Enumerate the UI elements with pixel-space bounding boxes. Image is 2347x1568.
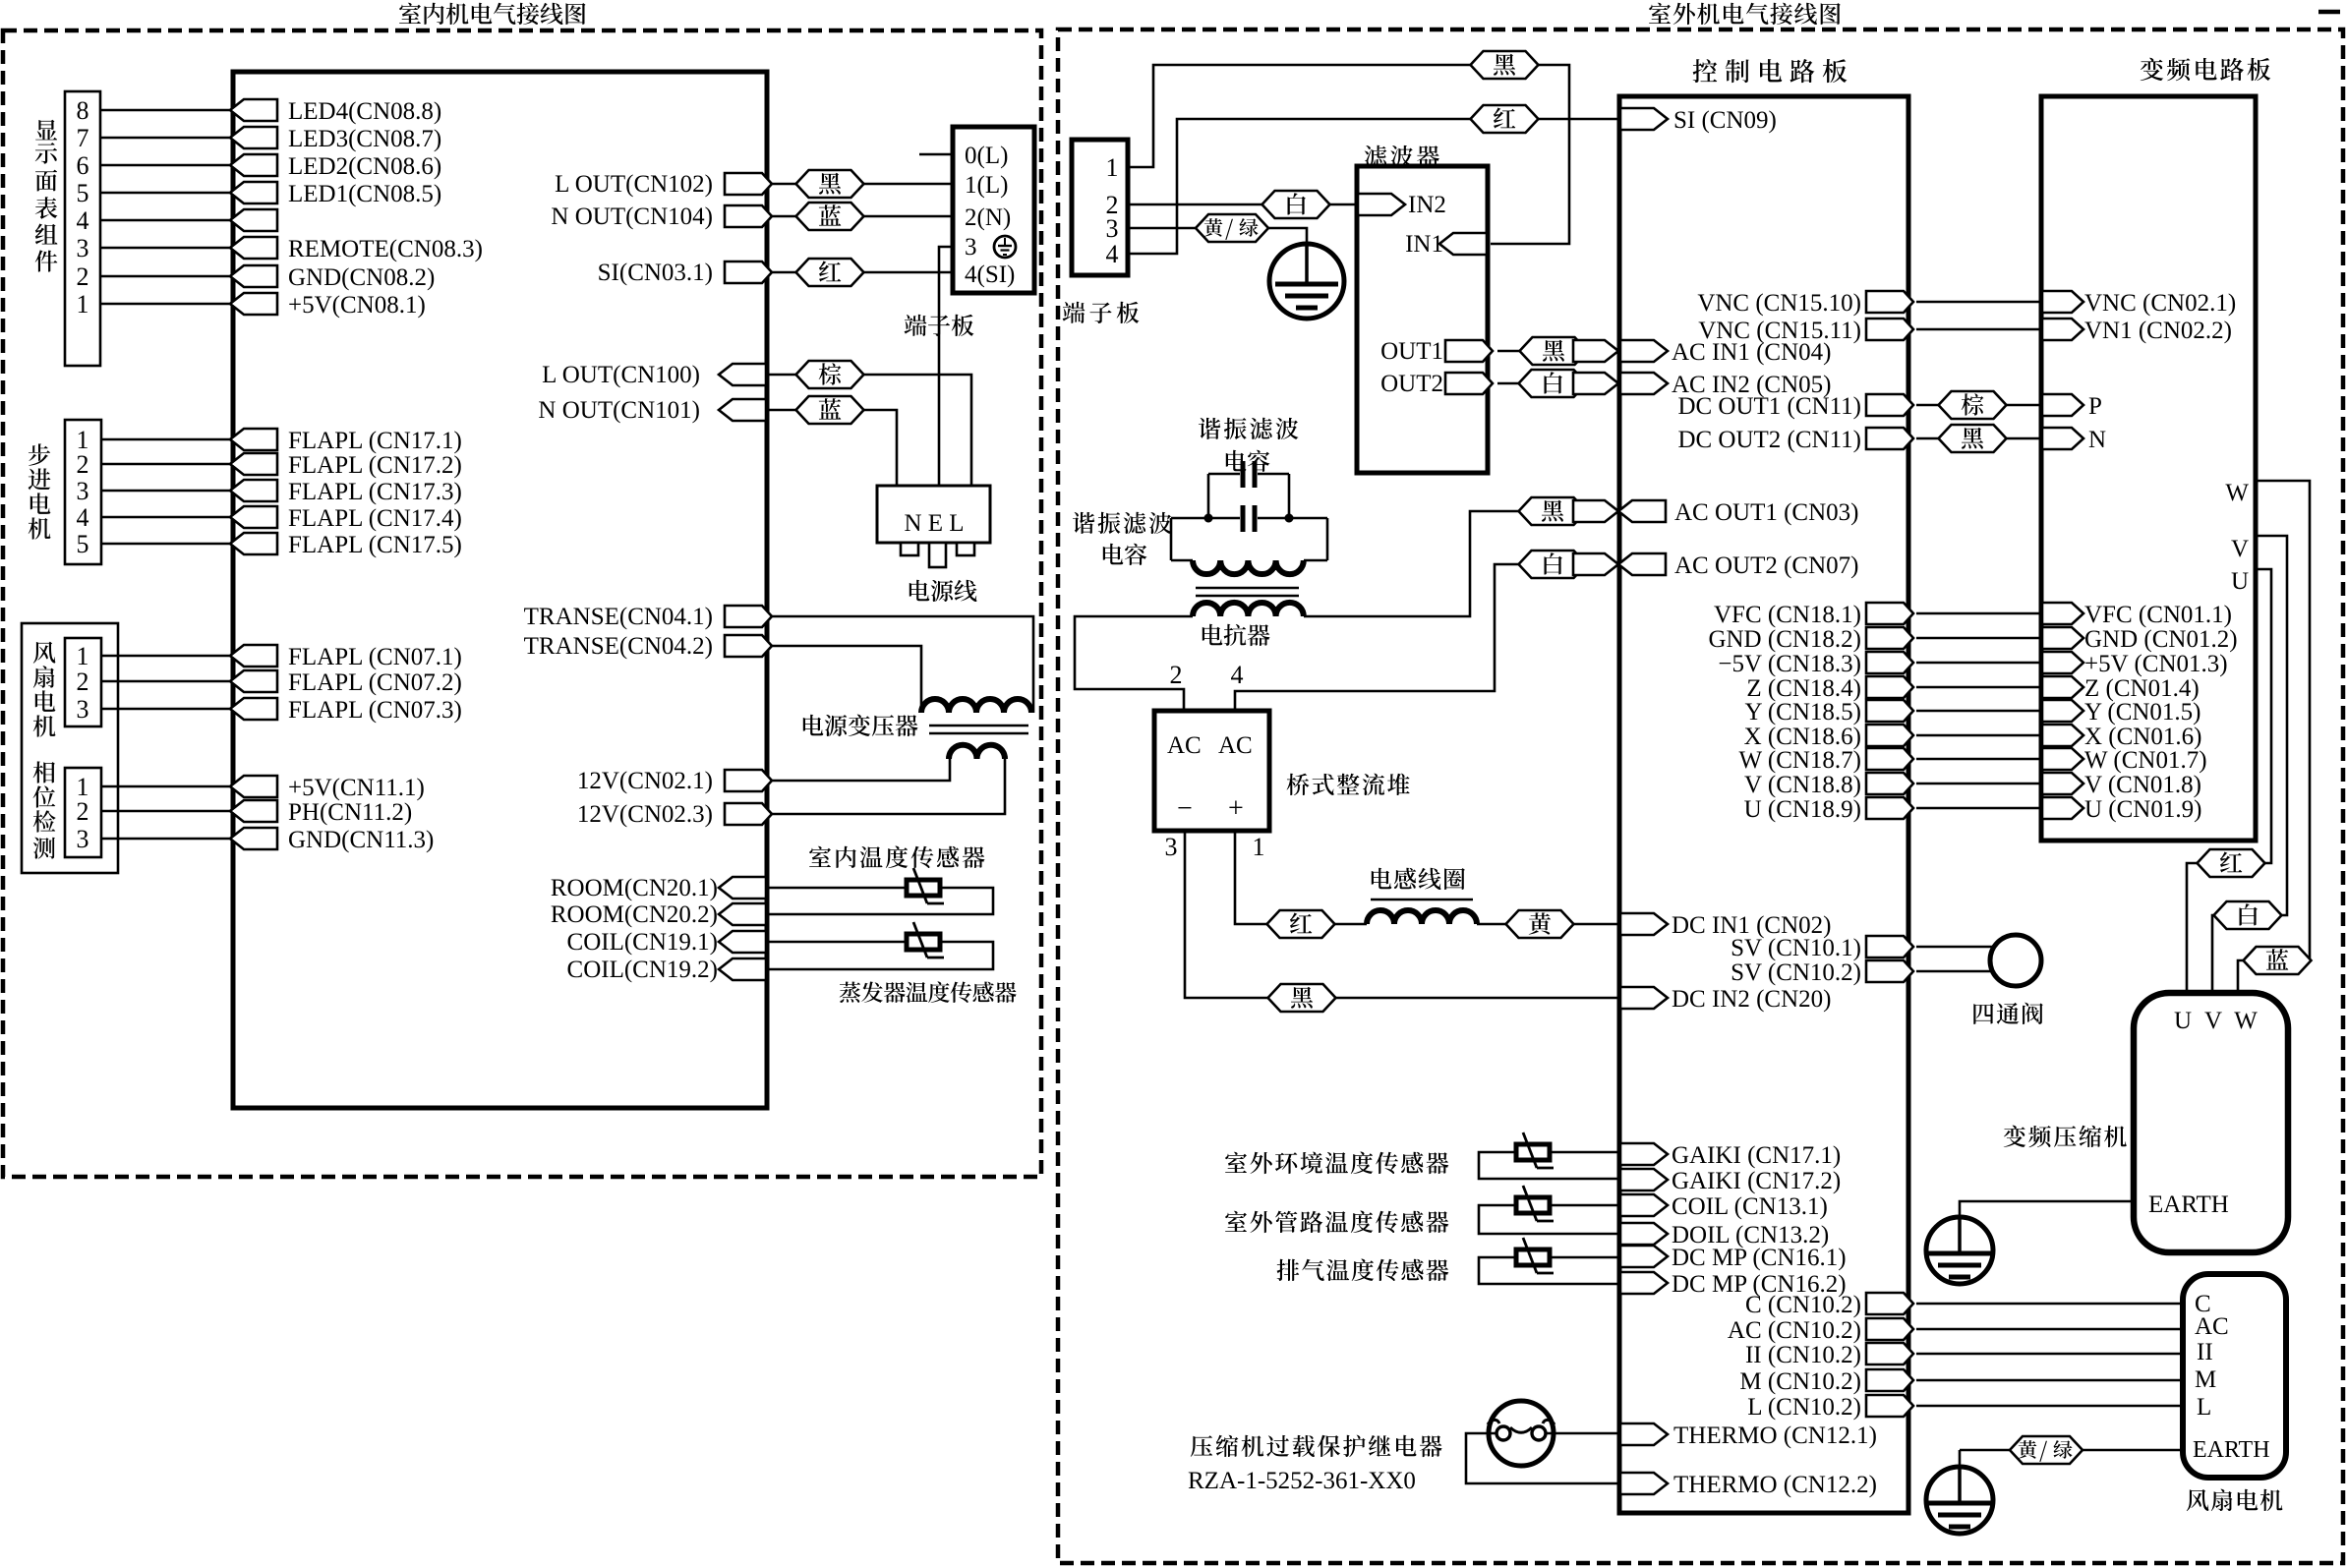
svg-text:V (CN18.8): V (CN18.8) bbox=[1744, 772, 1861, 798]
label 风扇电机 (vertical) bbox=[33, 642, 56, 664]
wire 黄 to DC IN1 pin bbox=[1574, 923, 1618, 926]
wire stepper pin 4 bbox=[101, 516, 233, 519]
wire ROOM(CN20.1) loop bbox=[768, 888, 993, 914]
pin DC IN1 (CN02) bbox=[1620, 913, 1668, 935]
pin Y (CN01.5) bbox=[2042, 700, 2083, 722]
wire display pin 2 to PCB bbox=[100, 275, 233, 278]
svg-text:C (CN10.2): C (CN10.2) bbox=[1745, 1292, 1861, 1318]
wire 棕 to P bbox=[2006, 404, 2041, 407]
svg-text:6: 6 bbox=[77, 151, 89, 180]
wire bridge 4 to 白 AC OUT2 bbox=[1235, 564, 1519, 711]
wire N OUT(CN101) to 蓝 bbox=[768, 409, 796, 412]
PCB pin FLAPL (CN07.3) bbox=[230, 698, 277, 720]
pin VNC (CN02.1) bbox=[2042, 291, 2083, 313]
svg-text:4: 4 bbox=[1231, 661, 1244, 689]
svg-text:3: 3 bbox=[77, 234, 89, 262]
NEL prong earth (middle) bbox=[929, 543, 946, 567]
label 桥式整流堆 bbox=[1287, 774, 1310, 795]
pin II (CN10.2) bbox=[1866, 1343, 1913, 1365]
pin COIL(CN19.1) bbox=[719, 931, 766, 953]
pin ROOM(CN20.1) bbox=[719, 877, 766, 899]
svg-text:ROOM(CN20.1): ROOM(CN20.1) bbox=[551, 875, 718, 901]
pin P bbox=[2042, 394, 2083, 416]
title 室外机电气接线图 bbox=[1649, 3, 1671, 24]
wire terminal 3 earth down to NEL bbox=[939, 247, 953, 486]
svg-text:12V(CN02.3): 12V(CN02.3) bbox=[577, 801, 713, 828]
relay contact left bbox=[1496, 1426, 1510, 1440]
svg-text:U: U bbox=[2174, 1008, 2192, 1034]
filter pin OUT2 bbox=[1445, 373, 1493, 394]
svg-text:2: 2 bbox=[77, 262, 89, 291]
wire display pin 1 to PCB bbox=[100, 303, 233, 306]
svg-text:1: 1 bbox=[77, 642, 89, 670]
wire N OUT(CN104) to 蓝 bbox=[768, 215, 796, 218]
wire SV (CN10.1) to valve bbox=[1916, 946, 1994, 949]
PCB pin FLAPL (CN17.3) bbox=[230, 480, 277, 501]
wire phase pin 2 bbox=[101, 810, 233, 813]
transformer secondary coil bbox=[949, 745, 1005, 759]
svg-text:EARTH: EARTH bbox=[2148, 1191, 2229, 1218]
svg-text:P: P bbox=[2088, 393, 2102, 420]
pin Y (CN18.5) bbox=[1866, 700, 1913, 722]
pin VFC (CN18.1) bbox=[1866, 603, 1913, 624]
svg-text:FLAPL (CN17.2): FLAPL (CN17.2) bbox=[288, 452, 462, 479]
ground symbol (compressor) bbox=[1926, 1217, 1993, 1284]
wire 黑 to terminal 1(L) bbox=[863, 183, 953, 186]
wire VFC to inverter bbox=[1916, 612, 2041, 615]
wire stepper pin 2 bbox=[101, 463, 233, 466]
svg-text:GAIKI (CN17.2): GAIKI (CN17.2) bbox=[1672, 1168, 1841, 1194]
pin THERMO (CN12.2) bbox=[1620, 1473, 1668, 1494]
reactor bottom winding bbox=[1193, 603, 1304, 616]
wire display pin 4 to PCB bbox=[100, 219, 233, 222]
wire 红 to compressor U bbox=[2187, 863, 2198, 993]
svg-text:L OUT(CN102): L OUT(CN102) bbox=[555, 171, 713, 198]
wire 蓝 to NEL N bbox=[863, 410, 897, 486]
pin L OUT(CN100) bbox=[719, 364, 766, 385]
wire U to inverter bbox=[1916, 807, 2041, 810]
svg-text:3: 3 bbox=[1165, 833, 1178, 861]
wire fan pin 2 bbox=[101, 680, 233, 683]
hexagon wire tag 红 (U) bbox=[2198, 849, 2265, 877]
svg-text:+5V(CN08.1): +5V(CN08.1) bbox=[288, 292, 426, 319]
svg-text:U: U bbox=[2231, 568, 2249, 595]
wire OUT1 to 黑 bbox=[1497, 350, 1520, 353]
hexagon wire tag 白 (IN2) bbox=[1262, 191, 1330, 218]
wire 白 to filter IN2 bbox=[1330, 203, 1357, 206]
svg-text:L: L bbox=[2197, 1394, 2211, 1421]
svg-text:W: W bbox=[2234, 1008, 2258, 1034]
wire DC OUT2 to 黑 bbox=[1916, 437, 1939, 440]
PCB pin LED3(CN08.7) bbox=[230, 127, 277, 148]
PCB pin FLAPL (CN17.4) bbox=[230, 506, 277, 528]
svg-text:4(SI): 4(SI) bbox=[965, 261, 1015, 288]
svg-text:COIL(CN19.1): COIL(CN19.1) bbox=[567, 929, 718, 956]
wire to ground (fan) bbox=[1959, 1450, 1962, 1469]
svg-text:1(L): 1(L) bbox=[965, 172, 1008, 199]
inverter compressor body bbox=[2134, 993, 2288, 1252]
svg-text:AC: AC bbox=[2195, 1313, 2229, 1340]
svg-text:U (CN01.9): U (CN01.9) bbox=[2084, 796, 2201, 823]
wire GND to inverter bbox=[1916, 637, 2041, 640]
dashed frame: outdoor unit panel bbox=[1058, 29, 2343, 1563]
wire TRANSE(CN04.1) to primary bbox=[768, 616, 1033, 713]
hexagon wire tag 红 (top) bbox=[1471, 105, 1539, 133]
svg-text:Y (CN18.5): Y (CN18.5) bbox=[1744, 699, 1861, 726]
label 压缩机过载保护继电器 bbox=[1191, 1435, 1212, 1457]
pin SV (CN10.1) bbox=[1866, 936, 1913, 958]
PCB pin FLAPL (CN07.2) bbox=[230, 670, 277, 692]
wire 蓝 to compressor W bbox=[2238, 960, 2244, 993]
PCB pin CN08.4 bbox=[230, 209, 277, 231]
svg-text:U (CN18.9): U (CN18.9) bbox=[1744, 796, 1861, 823]
thermistor RT5 (discharge) bbox=[1516, 1249, 1550, 1265]
svg-text:LED2(CN08.6): LED2(CN08.6) bbox=[288, 153, 441, 180]
reactor core lines bbox=[1196, 587, 1299, 590]
svg-text:GND (CN01.2): GND (CN01.2) bbox=[2084, 626, 2238, 653]
svg-text:AC: AC bbox=[1218, 732, 1253, 759]
connector outer box 风扇电机/相位检测 bbox=[22, 623, 118, 873]
pin VN1 (CN02.2) bbox=[2042, 319, 2083, 340]
svg-text:2: 2 bbox=[77, 450, 89, 479]
PCB pin FLAPL (CN17.5) bbox=[230, 533, 277, 554]
wire reactor right to 黑 AC OUT1 bbox=[1304, 511, 1519, 616]
pin 12V(CN02.1) bbox=[725, 770, 772, 791]
PCB pin GND(CN08.2) bbox=[230, 265, 277, 287]
pin GND (CN01.2) bbox=[2042, 627, 2083, 649]
pin C (CN10.2) bbox=[1866, 1293, 1913, 1314]
label 滤波器 bbox=[1365, 145, 1387, 167]
label 电源线 bbox=[909, 580, 930, 602]
transformer core lines bbox=[929, 725, 1028, 727]
thermistor RT4 (outdoor pipe) bbox=[1516, 1197, 1550, 1213]
svg-text:W (CN01.7): W (CN01.7) bbox=[2084, 747, 2207, 774]
wire SI(CN03.1) to 红 bbox=[768, 271, 796, 274]
inductor coil L1 bbox=[1367, 910, 1477, 924]
wire 黄/绿 to fan EARTH bbox=[2081, 1449, 2183, 1452]
svg-text:N: N bbox=[2088, 427, 2106, 453]
svg-text:DC MP (CN16.1): DC MP (CN16.1) bbox=[1672, 1245, 1847, 1271]
thermistor RT3 (outdoor air) bbox=[1516, 1144, 1550, 1160]
label 谐振滤波 电容 (left) bbox=[1073, 512, 1094, 534]
hexagon wire tag 黄/绿 (earth) bbox=[1196, 214, 1268, 242]
svg-text:5: 5 bbox=[77, 179, 89, 207]
bridge rectifier box bbox=[1154, 711, 1269, 831]
wire VNC CN15.11 bbox=[1916, 328, 2041, 331]
wire display pin 3 to PCB bbox=[100, 247, 233, 250]
wire 黄/绿 to ground bbox=[1266, 228, 1307, 245]
svg-text:II (CN10.2): II (CN10.2) bbox=[1745, 1342, 1861, 1368]
pin N OUT(CN101) bbox=[719, 399, 766, 421]
pin TRANSE(CN04.1) bbox=[725, 606, 772, 627]
wire stepper pin 1 bbox=[101, 438, 233, 441]
capacitor C2 plates bbox=[1241, 505, 1246, 532]
wire display pin 7 to PCB bbox=[100, 137, 233, 140]
svg-text:0(L): 0(L) bbox=[965, 143, 1008, 169]
wire W to 蓝 bbox=[2256, 481, 2310, 960]
terminal board box (outdoor) bbox=[1072, 140, 1128, 275]
wire 黑 to filter IN1 bbox=[1491, 65, 1569, 244]
wire bridge 3 to 黑 DC IN2 bbox=[1185, 831, 1268, 998]
wire U to 红 bbox=[2256, 569, 2271, 863]
svg-text:COIL(CN19.2): COIL(CN19.2) bbox=[567, 957, 718, 983]
pin COIL (CN13.1) bbox=[1620, 1194, 1668, 1216]
hexagon wire tag 白 (V) bbox=[2214, 901, 2282, 929]
svg-text:3: 3 bbox=[77, 825, 89, 853]
svg-text:FLAPL (CN17.1): FLAPL (CN17.1) bbox=[288, 428, 462, 454]
pin AC OUT2 (CN07) bbox=[1618, 553, 1666, 575]
wire fan pin 1 bbox=[101, 655, 233, 658]
dashed frame: indoor unit panel bbox=[3, 30, 1041, 1177]
svg-text:DC IN2 (CN20): DC IN2 (CN20) bbox=[1672, 986, 1832, 1013]
filter pin OUT1 bbox=[1445, 340, 1493, 362]
svg-text:FLAPL (CN17.4): FLAPL (CN17.4) bbox=[288, 505, 462, 532]
pin M (CN10.2) bbox=[1866, 1369, 1913, 1391]
label 蒸发器温度传感器 bbox=[840, 982, 861, 1003]
svg-text:3: 3 bbox=[1106, 214, 1119, 243]
svg-text:3: 3 bbox=[77, 477, 89, 505]
wire phase pin 3 bbox=[101, 838, 233, 841]
wire 红 to terminal 4(SI) bbox=[863, 271, 953, 274]
svg-text:7: 7 bbox=[77, 124, 89, 152]
wire DC MP sensor loop bbox=[1479, 1257, 1619, 1284]
svg-text:+: + bbox=[1228, 793, 1244, 824]
wire terminal1 to 黑 bbox=[1128, 65, 1471, 167]
wire inductor to 黄 bbox=[1477, 923, 1505, 926]
svg-text:V: V bbox=[2231, 536, 2249, 562]
pin N bbox=[2042, 428, 2083, 449]
hexagon wire tag 白 (AC IN2) bbox=[1519, 370, 1587, 397]
PCB pin REMOTE(CN08.3) bbox=[230, 237, 277, 259]
pin ROOM(CN20.2) bbox=[719, 903, 766, 925]
pin VNC (CN15.10) bbox=[1866, 291, 1913, 313]
pin −5V (CN18.3) bbox=[1866, 652, 1913, 673]
wire 白 to compressor V bbox=[2212, 915, 2214, 993]
svg-text:FLAPL (CN17.3): FLAPL (CN17.3) bbox=[288, 479, 462, 505]
svg-text:VFC (CN18.1): VFC (CN18.1) bbox=[1714, 602, 1861, 628]
pin GAIKI (CN17.1) bbox=[1620, 1143, 1668, 1165]
label 相位检测 (vertical) bbox=[33, 761, 55, 783]
NEL prong left bbox=[901, 543, 918, 555]
svg-text:VN1 (CN02.2): VN1 (CN02.2) bbox=[2084, 318, 2232, 344]
PCB pin LED2(CN08.6) bbox=[230, 154, 277, 176]
wire bridge 1 to 红 bbox=[1235, 831, 1267, 924]
filter pin IN2 bbox=[1358, 194, 1405, 215]
svg-text:VFC (CN01.1): VFC (CN01.1) bbox=[2084, 602, 2232, 628]
wire display pin 5 to PCB bbox=[100, 192, 233, 195]
pin AC IN1 (CN04) bbox=[1620, 340, 1668, 362]
svg-text:AC OUT2 (CN07): AC OUT2 (CN07) bbox=[1674, 552, 1859, 579]
svg-text:AC: AC bbox=[1167, 732, 1202, 759]
svg-text:DC OUT2 (CN11): DC OUT2 (CN11) bbox=[1677, 427, 1861, 453]
filter box bbox=[1357, 166, 1488, 473]
svg-text:RZA-1-5252-361-XX0: RZA-1-5252-361-XX0 bbox=[1188, 1468, 1416, 1494]
pin SI (CN09) bbox=[1620, 108, 1668, 130]
svg-text:X (CN18.6): X (CN18.6) bbox=[1744, 724, 1861, 750]
hexagon wire tag 黄 bbox=[1506, 910, 1574, 938]
thermistor RT2 (evaporator) bbox=[907, 934, 940, 950]
svg-text:LED1(CN08.5): LED1(CN08.5) bbox=[288, 181, 441, 207]
label 变频压缩机 bbox=[2004, 1126, 2026, 1147]
svg-text:M: M bbox=[2195, 1366, 2216, 1393]
svg-text:COIL (CN13.1): COIL (CN13.1) bbox=[1672, 1193, 1828, 1220]
pin DC OUT2 (CN11) bbox=[1866, 428, 1913, 449]
wire fan earth to 黄/绿 bbox=[1960, 1449, 2012, 1452]
svg-text:SI (CN09): SI (CN09) bbox=[1673, 107, 1777, 134]
svg-text:N E L: N E L bbox=[904, 510, 964, 537]
svg-text:3: 3 bbox=[77, 695, 89, 724]
svg-text:VNC (CN02.1): VNC (CN02.1) bbox=[2084, 290, 2236, 317]
wire 白 to AC OUT2 pin bbox=[1574, 563, 1586, 566]
label 室外环境温度传感器 bbox=[1225, 1152, 1247, 1173]
wire X to inverter bbox=[1916, 734, 2041, 737]
pin X (CN01.6) bbox=[2042, 725, 2083, 746]
wire relay to THERMO (CN12.1) bbox=[1546, 1432, 1618, 1435]
wire 黑 to AC IN1 bbox=[1587, 350, 1618, 353]
wire L OUT(CN100) to 棕 bbox=[768, 374, 796, 377]
svg-text:LED3(CN08.7): LED3(CN08.7) bbox=[288, 126, 441, 152]
svg-text:+5V (CN01.3): +5V (CN01.3) bbox=[2084, 651, 2228, 677]
pin X (CN18.6) bbox=[1866, 725, 1913, 746]
wire V to 白 bbox=[2256, 536, 2287, 915]
wire reactor left to bridge 2 bbox=[1075, 616, 1193, 711]
label 四通阀 bbox=[1973, 1004, 1993, 1024]
label 显示面表组件 (vertical) bbox=[35, 120, 57, 141]
wire COIL(CN19.1) loop bbox=[768, 942, 993, 969]
pin W (CN01.7) bbox=[2042, 748, 2083, 770]
pin AC IN2 (CN05) bbox=[1620, 373, 1668, 394]
terminal 3 ground symbol bbox=[994, 236, 1016, 258]
overload relay circle bbox=[1489, 1401, 1554, 1466]
pin TRANSE(CN04.2) bbox=[725, 635, 772, 657]
wire phase pin 1 bbox=[101, 785, 233, 788]
svg-text:N OUT(CN101): N OUT(CN101) bbox=[538, 397, 700, 424]
pin Z (CN18.4) bbox=[1866, 676, 1913, 698]
svg-text:V: V bbox=[2204, 1008, 2222, 1034]
reactor top winding bbox=[1170, 518, 1173, 560]
svg-text:M (CN10.2): M (CN10.2) bbox=[1739, 1368, 1861, 1395]
wire −5V to inverter bbox=[1916, 662, 2041, 665]
wire 12V(CN02.3) to secondary bbox=[768, 759, 1005, 814]
svg-text:+5V(CN11.1): +5V(CN11.1) bbox=[288, 775, 425, 801]
wire display pin 8 to PCB bbox=[100, 109, 233, 112]
ground symbol (fan motor) bbox=[1926, 1467, 1993, 1534]
relay contact right bbox=[1532, 1426, 1546, 1440]
wire DC OUT1 to 棕 bbox=[1916, 404, 1939, 407]
PCB pin +5V(CN11.1) bbox=[230, 776, 277, 797]
wire TRANSE(CN04.2) to primary bbox=[768, 646, 921, 713]
svg-text:OUT1: OUT1 bbox=[1380, 338, 1443, 365]
label 变频电路板 bbox=[2141, 58, 2163, 81]
pin AC (CN10.2) bbox=[1866, 1318, 1913, 1340]
four-way valve circle 四通阀 bbox=[1990, 935, 2041, 986]
svg-text:1: 1 bbox=[1106, 153, 1119, 182]
pin W (CN18.7) bbox=[1866, 748, 1913, 770]
svg-text:GND(CN11.3): GND(CN11.3) bbox=[288, 827, 434, 853]
pin V (CN18.8) bbox=[1866, 773, 1913, 794]
transformer T1 primary coil bbox=[921, 699, 1031, 713]
wire 棕 to NEL L bbox=[863, 375, 971, 486]
pin +5V (CN01.3) bbox=[2042, 652, 2083, 673]
svg-text:REMOTE(CN08.3): REMOTE(CN08.3) bbox=[288, 236, 483, 262]
hexagon wire tag 蓝 bbox=[796, 396, 864, 424]
inverter circuit board bbox=[2041, 96, 2256, 841]
PCB pin +5V(CN08.1) bbox=[230, 293, 277, 315]
svg-text:X (CN01.6): X (CN01.6) bbox=[2084, 724, 2201, 750]
pin GND (CN18.2) bbox=[1866, 627, 1913, 649]
wire 红 to inductor bbox=[1334, 923, 1367, 926]
svg-text:2(N): 2(N) bbox=[965, 204, 1011, 231]
svg-text:Y (CN01.5): Y (CN01.5) bbox=[2084, 699, 2201, 726]
label 控制电路板 bbox=[1693, 59, 1718, 83]
thermistor RT1 (room) bbox=[907, 880, 940, 896]
wire W to inverter bbox=[1916, 758, 2041, 761]
arrow into AC IN2 bbox=[1573, 373, 1618, 394]
svg-text:SV (CN10.1): SV (CN10.1) bbox=[1731, 935, 1861, 961]
svg-text:ROOM(CN20.2): ROOM(CN20.2) bbox=[551, 901, 718, 928]
label 端子板 (outdoor) bbox=[1063, 302, 1085, 323]
hexagon wire tag 棕 bbox=[796, 361, 864, 388]
svg-text:3: 3 bbox=[965, 234, 977, 261]
wire 黑 to AC OUT1 pin bbox=[1574, 510, 1587, 513]
label 风扇电机 bbox=[2187, 1489, 2209, 1511]
svg-text:8: 8 bbox=[77, 96, 89, 125]
PCB pin GND(CN11.3) bbox=[230, 828, 277, 849]
svg-text:EARTH: EARTH bbox=[2193, 1437, 2270, 1463]
wire Y to inverter bbox=[1916, 710, 2041, 713]
wire 白 to AC IN2 bbox=[1586, 382, 1618, 385]
label 室内温度传感器 bbox=[809, 846, 831, 867]
svg-text:IN2: IN2 bbox=[1408, 192, 1446, 218]
pin DC MP (CN16.1) bbox=[1620, 1246, 1668, 1267]
pin AC OUT1 (CN03) bbox=[1618, 500, 1666, 522]
wire stepper pin 5 bbox=[101, 543, 233, 546]
wire display pin 6 to PCB bbox=[100, 164, 233, 167]
svg-text:L OUT(CN100): L OUT(CN100) bbox=[542, 362, 700, 388]
arrow into AC OUT2 bbox=[1573, 553, 1618, 575]
hexagon wire tag 黑 (AC OUT1) bbox=[1519, 497, 1587, 525]
svg-text:THERMO (CN12.2): THERMO (CN12.2) bbox=[1673, 1472, 1877, 1498]
svg-text:LED4(CN08.8): LED4(CN08.8) bbox=[288, 98, 441, 125]
hexagon wire tag 棕 (P) bbox=[1939, 391, 2007, 419]
fan connector box bbox=[65, 638, 101, 726]
PCB pin FLAPL (CN07.1) bbox=[230, 645, 277, 667]
hexagon wire tag 红 bbox=[796, 259, 864, 286]
svg-text:5: 5 bbox=[77, 530, 89, 558]
junction dot left bbox=[1204, 514, 1213, 523]
NEL power plug body bbox=[877, 486, 990, 543]
label 端子板 (indoor) bbox=[905, 315, 927, 336]
hexagon wire tag 黑 (N) bbox=[1939, 425, 2007, 452]
pin GAIKI (CN17.2) bbox=[1620, 1169, 1668, 1191]
wire 蓝 to terminal 2(N) bbox=[863, 215, 953, 218]
title 室内机电气接线图 bbox=[399, 3, 421, 24]
filter pin IN1 bbox=[1439, 233, 1487, 255]
wire 黑 to N bbox=[2006, 437, 2041, 440]
pin DC OUT1 (CN11) bbox=[1866, 394, 1913, 416]
PCB pin FLAPL (CN17.1) bbox=[230, 429, 277, 450]
PCB pin LED1(CN08.5) bbox=[230, 182, 277, 203]
svg-text:FLAPL (CN07.1): FLAPL (CN07.1) bbox=[288, 644, 462, 670]
wire OUT2 to 白 bbox=[1497, 382, 1519, 385]
svg-text:V (CN01.8): V (CN01.8) bbox=[2084, 772, 2201, 798]
svg-text:W: W bbox=[2225, 480, 2249, 506]
wire Z to inverter bbox=[1916, 686, 2041, 689]
hexagon wire tag 蓝 bbox=[796, 203, 864, 230]
wire stepper pin 3 bbox=[101, 490, 233, 493]
svg-text:12V(CN02.1): 12V(CN02.1) bbox=[577, 768, 713, 794]
pin DOIL (CN13.2) bbox=[1620, 1223, 1668, 1245]
